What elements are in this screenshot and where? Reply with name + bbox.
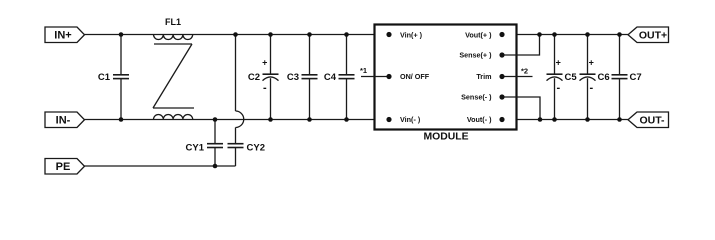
svg-text:OUT+: OUT+ <box>639 30 667 42</box>
svg-text:-: - <box>556 82 560 94</box>
svg-text:IN+: IN+ <box>54 30 71 42</box>
svg-text:C4: C4 <box>324 72 337 83</box>
svg-text:OUT-: OUT- <box>639 115 665 127</box>
svg-text:FL1: FL1 <box>165 17 181 27</box>
svg-text:C3: C3 <box>287 72 299 83</box>
svg-text:PE: PE <box>56 161 71 173</box>
svg-text:C6: C6 <box>598 72 610 83</box>
svg-text:MODULE: MODULE <box>423 132 468 143</box>
svg-text:+: + <box>262 58 267 68</box>
svg-text:C2: C2 <box>248 72 260 83</box>
svg-text:IN-: IN- <box>56 115 71 127</box>
svg-text:CY1: CY1 <box>186 143 205 154</box>
svg-text:Vin(+ ): Vin(+ ) <box>400 30 423 39</box>
svg-text:ON/ OFF: ON/ OFF <box>400 72 430 81</box>
svg-text:-: - <box>589 82 593 94</box>
svg-text:*1: *1 <box>360 66 367 75</box>
svg-text:CY2: CY2 <box>247 143 265 154</box>
svg-text:Sense(+ ): Sense(+ ) <box>459 50 492 59</box>
svg-text:Trim: Trim <box>476 72 491 81</box>
svg-text:-: - <box>263 82 267 94</box>
svg-text:C5: C5 <box>565 72 578 83</box>
svg-text:C7: C7 <box>630 72 642 83</box>
svg-text:Vout(- ): Vout(- ) <box>467 115 492 124</box>
svg-text:Vout(+ ): Vout(+ ) <box>465 30 492 39</box>
svg-text:*2: *2 <box>521 67 528 76</box>
svg-text:C1: C1 <box>98 72 111 83</box>
svg-text:+: + <box>556 58 561 68</box>
svg-text:Vin(- ): Vin(- ) <box>400 115 421 124</box>
svg-text:+: + <box>589 58 594 68</box>
svg-text:Sense(- ): Sense(- ) <box>461 92 492 101</box>
